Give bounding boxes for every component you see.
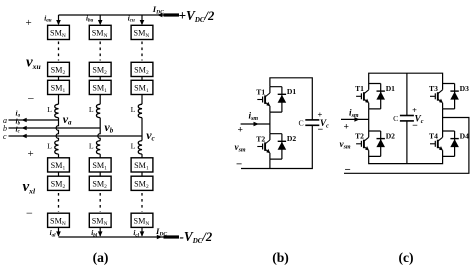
- wire: SM_N to bottom bus (phase a): [58, 227, 60, 236]
- svg-text:C: C: [298, 118, 303, 127]
- wire: (c) top rail: [369, 73, 443, 83]
- wire: dashed continuation (upper arm, phase a): [58, 42, 60, 61]
- label +Vc- of C (b): [318, 110, 330, 135]
- wire: -DC bus (bottom): [59, 236, 164, 238]
- wire: SM_1 to SM_2 (lower arm, phase b): [99, 172, 101, 176]
- current arrow i_cl: [140, 231, 145, 236]
- wire: (c) right leg between cells: [442, 109, 444, 131]
- submodule SM_N (upper arm, phase b): [89, 25, 111, 39]
- submodule SM_N (upper arm, phase a): [48, 25, 70, 39]
- current arrow i_b (pointing left): [22, 126, 27, 131]
- diode D2 (anti-parallel): [278, 134, 297, 159]
- wire: lower inductor to SM_1 (phase b): [99, 154, 101, 158]
- submodule SM_2 (lower arm, phase a): [48, 176, 70, 190]
- inductor L (lower arm, phase b): [96, 141, 100, 155]
- wire: (c) capacitor branch: [406, 73, 408, 163]
- wire: arm midpoint (phase b) with crossover hops: [98, 118, 100, 141]
- current arrow I_DC (bottom, pointing right): [157, 235, 162, 240]
- submodule SM_2 (lower arm, phase b): [89, 176, 111, 190]
- wire: top bus to SM_N (phase c upper): [141, 15, 143, 24]
- svg-text:L: L: [47, 105, 52, 114]
- wire: dashed continuation (lower arm, phase b): [99, 193, 101, 212]
- svg-text:T1: T1: [256, 87, 265, 96]
- wire: (c) left leg between cells: [368, 109, 370, 131]
- transistor T1 (IGBT): [355, 84, 369, 109]
- submodule SM_N (lower arm, phase c): [131, 213, 153, 227]
- svg-text:D2: D2: [386, 131, 395, 140]
- wire: SM_1 to upper inductor (phase b): [99, 95, 101, 105]
- capacitor C (c): [393, 114, 414, 123]
- svg-text:+: +: [26, 17, 32, 29]
- transistor T2 (IGBT): [256, 134, 270, 159]
- submodule SM_1 (lower arm, phase c): [131, 158, 153, 172]
- diode D4 (anti-parallel): [450, 131, 469, 156]
- wire: top bus to SM_N (phase b upper): [99, 15, 101, 24]
- wire: AC phase line c: [9, 135, 143, 137]
- wire: AC phase line a: [9, 119, 59, 121]
- wire: (b) bottom rail: [241, 126, 312, 169]
- svg-text:+: +: [344, 122, 349, 133]
- current arrow i_sm (b): [254, 122, 259, 127]
- inductor L (upper arm, phase a): [55, 104, 59, 118]
- submodule SM_2 (upper arm, phase b): [89, 62, 111, 76]
- wire: dashed continuation (upper arm, phase c): [141, 42, 143, 61]
- wire: T2/D2 cell top + bottom connectors: [270, 134, 282, 159]
- current arrow i_sm (c): [354, 117, 359, 122]
- svg-text:T2: T2: [256, 134, 265, 143]
- svg-text:C: C: [393, 114, 398, 123]
- wire: SM_2 to SM_1 (upper arm, phase c): [141, 77, 143, 81]
- submodule SM_1 (upper arm, phase a): [48, 80, 70, 94]
- svg-text:D4: D4: [460, 131, 469, 140]
- wire: T4/D4 cell top + bottom connectors: [443, 131, 455, 156]
- label +Vc- of C (c): [412, 106, 424, 131]
- wire: +DC bus (top): [59, 14, 164, 16]
- submodule SM_2 (upper arm, phase c): [131, 62, 153, 76]
- svg-text:D1: D1: [287, 87, 296, 96]
- current arrow i_c (pointing left): [22, 134, 27, 139]
- svg-text:L: L: [47, 142, 52, 151]
- wire: (b) left leg between cells: [269, 112, 271, 134]
- svg-text:T4: T4: [429, 132, 438, 141]
- transistor T4 (IGBT): [429, 131, 443, 156]
- wire: (b) left leg bottom: [269, 159, 271, 168]
- svg-text:−: −: [28, 92, 35, 106]
- svg-text:D3: D3: [460, 84, 469, 93]
- svg-text:−: −: [26, 206, 33, 220]
- wire: (c) bottom rail: [369, 156, 443, 164]
- submodule SM_N (lower arm, phase b): [89, 213, 111, 227]
- current arrow i_bl: [98, 231, 103, 236]
- diode D1 (anti-parallel): [376, 84, 395, 109]
- svg-text:+: +: [412, 106, 417, 115]
- wire: (b) input terminal: [241, 123, 270, 125]
- svg-text:(c): (c): [398, 250, 413, 266]
- wire: SM_N to bottom bus (phase b): [99, 227, 101, 236]
- current arrow I_DC (top, pointing left): [157, 13, 162, 18]
- svg-text:−: −: [236, 158, 242, 170]
- wire: arm midpoint (phase a) with crossover hops: [56, 118, 58, 141]
- svg-text:+: +: [238, 125, 243, 136]
- wire: lower inductor to SM_1 (phase a): [58, 154, 60, 158]
- submodule SM_N (upper arm, phase c): [131, 25, 153, 39]
- wire: dashed continuation (lower arm, phase a): [58, 193, 60, 212]
- DC terminal stub (bottom, thick): [164, 235, 180, 238]
- submodule SM_1 (lower arm, phase a): [48, 158, 70, 172]
- submodule SM_2 (upper arm, phase a): [48, 62, 70, 76]
- inductor L (upper arm, phase b): [96, 104, 100, 118]
- inductor L (lower arm, phase c): [138, 141, 142, 155]
- wire: (b) top rail: [270, 78, 312, 120]
- submodule SM_N (lower arm, phase a): [48, 213, 70, 227]
- submodule SM_1 (upper arm, phase c): [131, 80, 153, 94]
- current arrow i_au: [56, 20, 61, 25]
- wire: T3/D3 cell top + bottom connectors: [443, 84, 455, 109]
- submodule SM_1 (lower arm, phase b): [89, 158, 111, 172]
- wire: T2/D2 cell top + bottom connectors: [369, 131, 381, 156]
- svg-text:L: L: [131, 142, 136, 151]
- inductor L (lower arm, phase a): [55, 141, 59, 155]
- svg-text:L: L: [131, 105, 136, 114]
- wire: (c) input terminal: [341, 118, 369, 120]
- wire: SM_1 to upper inductor (phase c): [141, 95, 143, 105]
- current arrow i_a (pointing left): [22, 118, 27, 123]
- DC terminal stub (top, thick): [164, 13, 180, 16]
- wire: SM_1 to SM_2 (lower arm, phase c): [141, 172, 143, 176]
- svg-text:T2: T2: [355, 132, 364, 141]
- svg-text:T1: T1: [355, 84, 364, 93]
- transistor T3 (IGBT): [429, 84, 443, 109]
- svg-text:−: −: [345, 164, 351, 176]
- diode D3 (anti-parallel): [450, 84, 469, 109]
- svg-text:+: +: [318, 110, 323, 119]
- capacitor C (b): [298, 118, 319, 127]
- svg-text:(b): (b): [272, 250, 289, 266]
- wire: (c) output return from right-leg midpoint: [344, 118, 469, 174]
- diode D2 (anti-parallel): [376, 131, 395, 156]
- current arrow i_cu: [140, 20, 145, 25]
- wire: T1/D1 cell top + bottom connectors: [369, 84, 381, 109]
- svg-text:T3: T3: [429, 84, 438, 93]
- wire: SM_2 to SM_1 (upper arm, phase a): [58, 77, 60, 81]
- wire: SM_1 to upper inductor (phase a): [58, 95, 60, 105]
- svg-text:L: L: [89, 142, 94, 151]
- svg-text:c: c: [3, 132, 7, 141]
- wire: dashed continuation (upper arm, phase b): [99, 42, 101, 61]
- svg-text:+: +: [28, 148, 34, 160]
- submodule SM_2 (lower arm, phase c): [131, 176, 153, 190]
- svg-text:−: −: [318, 125, 324, 136]
- wire: T1/D1 cell top + bottom connectors: [270, 87, 282, 112]
- svg-text:−: −: [412, 120, 418, 131]
- svg-text:D1: D1: [386, 84, 395, 93]
- wire: arm midpoint (phase c) with crossover hops: [141, 118, 143, 141]
- submodule SM_1 (upper arm, phase b): [89, 80, 111, 94]
- wire: AC phase line b: [9, 127, 101, 129]
- wire: lower inductor to SM_1 (phase c): [141, 154, 143, 158]
- inductor L (upper arm, phase c): [138, 104, 142, 118]
- diode D1 (anti-parallel): [278, 87, 297, 112]
- wire: top bus to SM_N (phase a upper): [58, 15, 60, 24]
- svg-text:L: L: [89, 105, 94, 114]
- wire: dashed continuation (lower arm, phase c): [141, 193, 143, 212]
- wire: SM_2 to SM_1 (upper arm, phase b): [99, 77, 101, 81]
- transistor T2 (IGBT): [355, 131, 369, 156]
- wire: SM_N to bottom bus (phase c): [141, 227, 143, 236]
- wire: SM_1 to SM_2 (lower arm, phase a): [58, 172, 60, 176]
- svg-text:D2: D2: [287, 134, 296, 143]
- transistor T1 (IGBT): [256, 87, 270, 112]
- current arrow i_bu: [98, 20, 103, 25]
- svg-text:(a): (a): [93, 250, 109, 266]
- current arrow i_al: [56, 231, 61, 236]
